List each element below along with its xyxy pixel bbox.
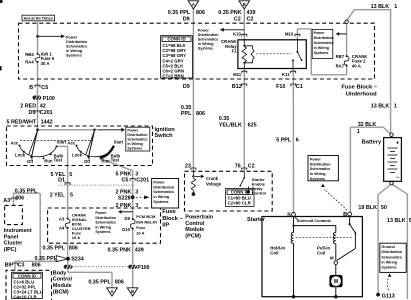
svg-text:Power: Power [314,31,325,35]
svg-text:Power: Power [66,35,78,39]
svg-text:in Wiring: in Wiring [127,142,142,146]
svg-text:Underhood: Underhood [346,91,377,97]
svg-text:B: B [131,289,134,294]
svg-text:Distribution: Distribution [381,250,402,254]
svg-text:A: A [110,289,113,294]
svg-text:13 BLK: 13 BLK [387,218,406,224]
svg-text:M: M [330,255,334,260]
svg-text:in Wiring: in Wiring [153,195,169,199]
svg-text:RB4: RB4 [25,52,34,57]
svg-text:(PCM): (PCM) [185,234,201,240]
svg-text:A3: A3 [3,198,10,204]
svg-text:Battery: Battery [362,139,382,145]
svg-text:Schematics: Schematics [198,37,219,41]
svg-text:PCM BCM: PCM BCM [136,214,156,219]
svg-text:YEL/BLK: YEL/BLK [219,123,242,129]
svg-text:0.35 PNK: 0.35 PNK [108,248,131,254]
svg-text:Hot at All Times: Hot at All Times [24,16,53,21]
svg-text:B: B [343,212,347,218]
svg-text:B9: B9 [5,263,12,269]
svg-text:Lock: Lock [72,152,83,157]
svg-text:F1: F1 [232,49,238,54]
svg-text:C2: C2 [247,17,254,23]
svg-text:C2: C2 [248,163,255,169]
svg-text:Power: Power [95,211,107,215]
svg-text:806: 806 [196,10,205,16]
svg-text:13 BLK: 13 BLK [371,104,390,110]
svg-text:Run: Run [44,159,53,164]
svg-text:5: 5 [69,172,72,178]
svg-text:RA7: RA7 [336,64,345,69]
svg-text:CONN ID: CONN ID [231,190,249,195]
svg-text:Systems: Systems [381,266,396,270]
svg-text:Distribution: Distribution [198,33,219,37]
svg-text:D9: D9 [183,84,190,90]
svg-text:(IPC): (IPC) [4,247,17,253]
svg-text:Crank: Crank [206,176,219,181]
svg-text:Systems: Systems [153,200,168,204]
svg-text:P100: P100 [43,96,55,102]
svg-text:1: 1 [394,4,397,10]
svg-text:Distribution: Distribution [153,185,174,189]
svg-text:Systems: Systems [198,46,213,50]
svg-text:806: 806 [15,195,24,201]
svg-text:Solenoid Contacts: Solenoid Contacts [297,218,331,223]
svg-text:Systems: Systems [310,177,325,181]
svg-text:M11: M11 [233,72,242,77]
svg-text:Coil: Coil [270,251,278,256]
svg-text:439: 439 [135,248,144,254]
svg-text:B: B [29,85,33,91]
svg-text:RB7: RB7 [336,54,345,59]
svg-text:0.35: 0.35 [219,116,230,122]
svg-text:C7=2 BRN: C7=2 BRN [162,74,183,79]
svg-text:76: 76 [235,163,241,169]
svg-text:3: 3 [135,189,138,195]
svg-text:2 PNK: 2 PNK [116,203,132,209]
svg-text:Ground: Ground [381,245,395,249]
svg-text:5 PPL: 5 PPL [276,137,292,143]
svg-text:2 YEL: 2 YEL [50,192,66,198]
svg-text:Power: Power [198,28,210,32]
svg-text:C2=80 CLR: C2=80 CLR [228,201,252,206]
svg-text:G113: G113 [382,294,395,300]
svg-text:B12: B12 [232,84,242,90]
svg-text:5 RED/WHT: 5 RED/WHT [7,119,37,125]
svg-text:A4: A4 [59,226,65,231]
svg-text:Start: Start [114,139,124,144]
svg-text:Schematics: Schematics [381,255,402,259]
svg-text:Systems: Systems [127,147,142,151]
svg-text:Distribution: Distribution [314,36,334,40]
svg-text:Systems: Systems [66,54,82,58]
svg-text:Acc: Acc [10,140,18,145]
svg-text:P100: P100 [137,265,149,271]
svg-text:C201: C201 [136,178,149,184]
svg-text:625: 625 [248,123,257,129]
svg-text:Starter: Starter [247,217,266,223]
svg-text:30 A: 30 A [41,61,50,66]
svg-text:Panel: Panel [4,234,19,240]
svg-text:Fuse: Fuse [136,225,146,230]
svg-text:0.35 PPL: 0.35 PPL [43,245,66,251]
svg-text:C5: C5 [121,178,128,184]
svg-text:C2: C2 [234,17,241,23]
svg-text:RA4: RA4 [25,60,34,65]
svg-text:Cluster: Cluster [4,241,23,247]
svg-text:Schematics: Schematics [95,221,116,225]
svg-text:D10: D10 [122,227,130,232]
svg-text:C3: C3 [18,263,25,269]
svg-text:439: 439 [247,10,256,16]
svg-text:Voltage: Voltage [206,182,222,187]
svg-text:Schematics: Schematics [127,138,147,142]
svg-text:D5: D5 [28,110,35,116]
svg-text:Powertrain: Powertrain [185,215,213,221]
svg-text:Instrument: Instrument [4,228,32,234]
svg-text:Ignition: Ignition [155,127,176,133]
svg-text:13 BLK: 13 BLK [371,4,390,10]
svg-text:Distribution: Distribution [127,133,147,137]
svg-text:Distribution: Distribution [310,162,331,166]
svg-text:C5: C5 [41,85,48,91]
svg-text:Module: Module [53,283,72,289]
svg-text:Off: Off [27,159,34,164]
svg-text:806: 806 [196,111,205,117]
svg-text:6: 6 [296,137,299,143]
svg-text:Off: Off [84,159,91,164]
svg-text:5 PNK: 5 PNK [116,171,132,177]
svg-text:Module: Module [185,227,204,233]
svg-text:10 A: 10 A [72,235,80,240]
svg-text:Lock: Lock [15,152,26,157]
svg-text:in Wiring: in Wiring [66,49,83,53]
svg-text:0.35 PPL: 0.35 PPL [35,256,58,262]
svg-text:C201: C201 [40,110,53,116]
svg-text:C1: C1 [296,84,303,90]
svg-text:5: 5 [70,192,73,198]
svg-text:Hold-In: Hold-In [270,245,285,250]
svg-text:S234: S234 [71,257,84,263]
svg-text:D1: D1 [58,178,65,184]
svg-text:Block –: Block – [162,216,183,222]
svg-text:Distribution: Distribution [95,216,116,220]
svg-text:IGN RELAY: IGN RELAY [136,220,158,225]
svg-text:D9: D9 [183,17,190,23]
svg-text:M: M [334,279,338,285]
svg-text:806: 806 [69,245,78,251]
svg-text:A3: A3 [59,217,65,222]
svg-text:0.35 PPL: 0.35 PPL [168,10,191,16]
svg-text:C4=10 CLR: C4=10 CLR [13,294,37,299]
svg-text:42: 42 [40,103,46,109]
svg-text:D9: D9 [125,216,131,221]
svg-text:Pull-In: Pull-In [317,245,331,250]
svg-text:32 BLK: 32 BLK [358,122,377,128]
svg-text:Systems: Systems [314,51,329,55]
svg-text:Start: Start [57,139,67,144]
svg-text:0.35 PPL: 0.35 PPL [15,188,38,194]
svg-text:Control: Control [185,221,205,227]
svg-text:Schematics: Schematics [314,41,334,45]
svg-text:10 A: 10 A [136,230,144,235]
svg-text:Schematics: Schematics [66,44,87,48]
svg-text:Schematics: Schematics [310,167,331,171]
svg-text:1: 1 [357,129,360,135]
svg-text:M10: M10 [285,32,294,37]
svg-text:Power: Power [310,157,322,161]
svg-text:in Wiring: in Wiring [95,225,111,229]
svg-text:A: A [192,2,195,7]
svg-text:Fuse: Fuse [162,209,176,215]
svg-text:806: 806 [32,263,41,269]
svg-text:PPL: PPL [181,111,192,117]
svg-text:2 RED: 2 RED [20,103,36,109]
svg-text:3: 3 [135,203,138,209]
svg-text:806: 806 [115,280,124,286]
svg-text:Systems: Systems [95,230,110,234]
svg-text:CONN ID: CONN ID [18,273,36,278]
svg-text:Body: Body [53,270,66,276]
svg-text:19 BLK: 19 BLK [358,205,377,211]
svg-text:3: 3 [135,171,138,177]
svg-text:S: S [287,213,291,219]
svg-text:S228: S228 [118,195,131,201]
svg-text:Switch: Switch [155,133,174,139]
svg-text:K11: K11 [282,72,290,77]
svg-text:K10: K10 [233,32,241,37]
svg-text:1: 1 [394,104,397,110]
svg-text:Coil: Coil [317,251,325,256]
svg-text:I/P: I/P [162,222,169,228]
svg-text:Run: Run [101,159,110,164]
svg-text:23: 23 [185,163,191,169]
svg-text:0.35 PPL: 0.35 PPL [88,280,111,286]
svg-text:Test: Test [54,157,63,162]
svg-text:CONN ID: CONN ID [167,37,185,42]
svg-text:Fuse Block –: Fuse Block – [341,85,378,91]
svg-text:B: B [243,2,246,7]
svg-text:Power: Power [153,181,165,185]
svg-text:in Wiring: in Wiring [314,46,329,50]
svg-text:Acc: Acc [67,140,75,145]
svg-text:40 A: 40 A [352,63,361,68]
svg-text:Schematics: Schematics [153,190,174,194]
svg-text:Power: Power [127,129,138,133]
svg-text:1442: 1442 [41,119,53,125]
svg-text:50: 50 [381,205,387,211]
svg-text:Test: Test [111,157,120,162]
svg-text:in Wiring: in Wiring [198,42,214,46]
svg-text:0.35 PNK: 0.35 PNK [218,10,241,16]
svg-text:Distribution: Distribution [66,40,88,44]
svg-text:in Wiring: in Wiring [310,172,326,176]
svg-text:(BCM): (BCM) [53,289,69,295]
svg-text:Control: Control [53,277,73,283]
svg-text:in Wiring: in Wiring [381,261,397,265]
svg-text:F10: F10 [276,84,285,90]
